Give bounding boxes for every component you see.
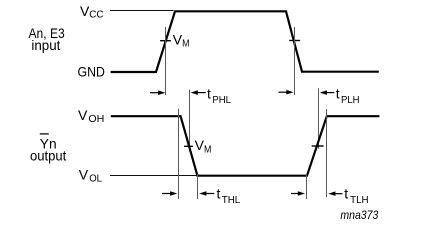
label VM output	[195, 137, 212, 155]
tTLH right arrow	[328, 191, 342, 196]
tTHL right arrow	[199, 191, 214, 196]
measurement line input fall VM	[294, 27, 296, 95]
tPLH left arrow	[279, 90, 294, 95]
label tTLH	[344, 186, 368, 206]
VM tick on input rising edge	[160, 40, 171, 42]
label VOH	[78, 107, 104, 125]
output waveform	[111, 116, 380, 176]
svg-text:t: t	[336, 86, 340, 102]
svg-text:t: t	[217, 185, 221, 201]
VM tick on output rising edge	[312, 145, 324, 147]
svg-text:THL: THL	[222, 195, 241, 206]
svg-text:output: output	[30, 147, 66, 163]
svg-text:M: M	[204, 144, 211, 155]
tPHL left arrow	[150, 90, 165, 95]
tTLH left arrow	[291, 191, 305, 196]
tPHL right arrow	[191, 90, 206, 95]
svg-text:mna373: mna373	[340, 208, 378, 222]
VM tick on input falling edge	[289, 40, 300, 42]
svg-text:CC: CC	[89, 9, 103, 20]
svg-text:OL: OL	[89, 173, 102, 184]
measurement line output fall VM	[189, 90, 191, 152]
svg-text:PLH: PLH	[341, 95, 360, 106]
label An, E3 input	[29, 25, 65, 53]
input waveform	[111, 11, 379, 72]
VOL reference line	[110, 175, 197, 177]
svg-text:OH: OH	[88, 114, 104, 125]
measurement line input rise VM	[165, 27, 167, 95]
tTHL left arrow	[162, 191, 177, 196]
label tTHL	[217, 185, 241, 206]
transition line output fall end	[197, 174, 199, 199]
svg-text:t: t	[344, 186, 348, 202]
transition line output rise end	[326, 109, 328, 197]
svg-text:TLH: TLH	[350, 195, 369, 206]
svg-text:input: input	[31, 37, 60, 53]
label tPHL	[207, 86, 231, 107]
svg-text:M: M	[182, 39, 189, 50]
label VCC	[80, 3, 104, 21]
svg-text:GND: GND	[78, 63, 105, 79]
label VOL	[79, 166, 103, 184]
VCC reference line	[110, 10, 174, 12]
tPLH right arrow	[320, 90, 335, 95]
svg-text:V: V	[79, 166, 89, 182]
VM tick on output falling edge	[184, 145, 193, 147]
svg-text:V: V	[78, 107, 88, 123]
svg-text:PHL: PHL	[212, 95, 231, 106]
transition line output fall start	[178, 109, 180, 199]
label VM input	[173, 31, 190, 49]
transition line output rise start	[306, 174, 308, 199]
measurement line output rise VM	[318, 88, 320, 149]
label Yn output	[30, 134, 66, 164]
svg-text:t: t	[207, 86, 211, 102]
label tPLH	[336, 86, 360, 107]
